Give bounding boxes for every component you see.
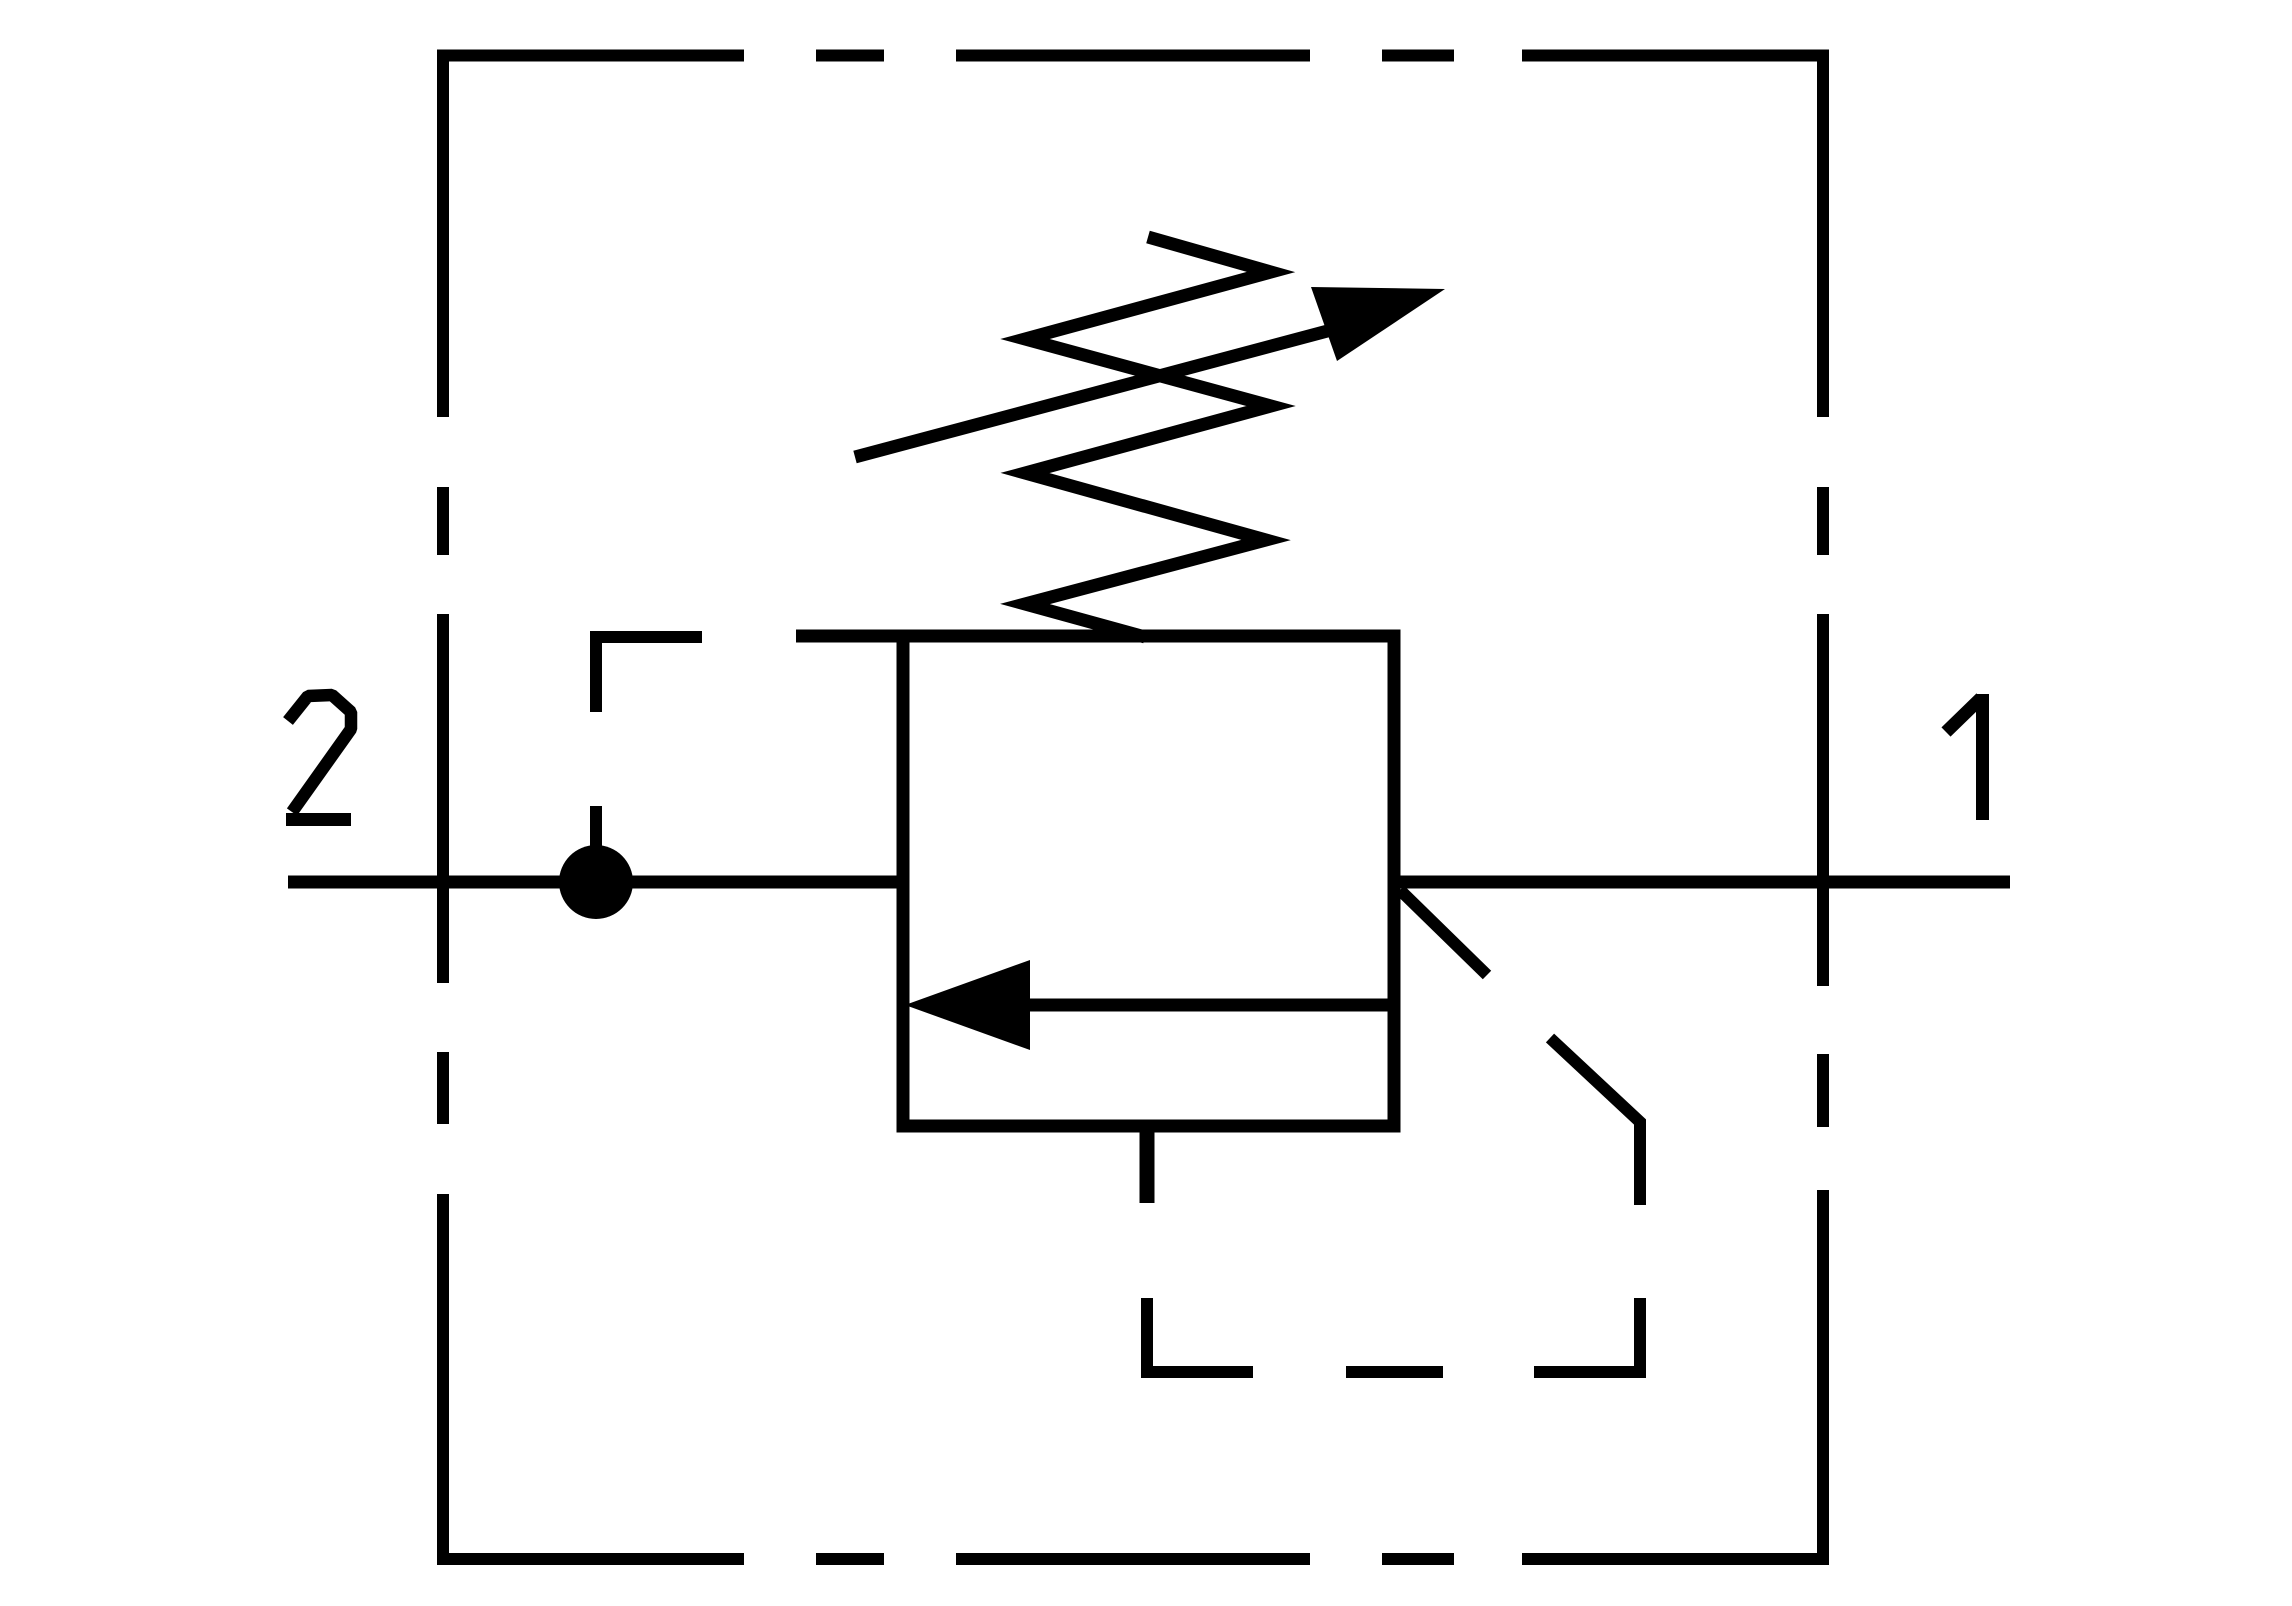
spring (adjustable spring zigzag) [1025,237,1271,637]
adjustment arrowhead [1311,287,1445,361]
pilot line dashes (from junction up and right to valve) [596,637,702,846]
port 2 flow line (left segment of main line) [288,876,903,889]
drain dashed path diagonal dash to valve corner [1400,890,1487,975]
junction dot on port 2 line [559,845,633,919]
check/relief flow arrow shaft inside valve [1030,999,1389,1012]
drain stub below valve [1140,1126,1155,1203]
envelope dashed border bottom side [437,1553,1829,1565]
valve body box [903,636,1394,1126]
envelope dashed border top side [437,50,1829,62]
drain dashed path middle dash [1346,1366,1443,1378]
port label 1 [1946,698,1981,732]
envelope dashed border left side [437,50,449,1566]
adjustment arrow shaft through spring [855,325,1350,457]
relief flow arrowhead pointing left [905,960,1030,1050]
port 1 flow line (right segment of main line) [1394,876,2010,889]
port label 2 [288,695,351,812]
envelope dashed border right side [1817,50,1829,1566]
drain dashed path vertical+diagonal bend [1550,1038,1640,1205]
valve top edge extension to the left [796,630,910,643]
drain dashed path left corner [1141,1298,1253,1372]
drain dashed path right corner [1534,1298,1646,1372]
